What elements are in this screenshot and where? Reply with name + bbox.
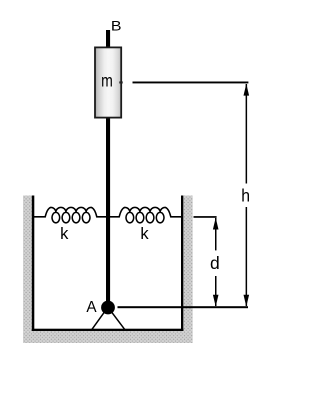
left wall (gray stipple)	[23, 196, 32, 332]
d top reference line (from wall)	[194, 216, 217, 218]
h dimension line (upper segment)	[246, 84, 248, 184]
d dimension line (lower segment)	[215, 276, 217, 306]
svg-text:k: k	[60, 224, 69, 243]
label B	[111, 19, 122, 34]
h top reference line (from mass)	[133, 82, 249, 84]
h arrowhead down	[244, 295, 250, 307]
svg-text:k: k	[140, 224, 149, 243]
pivot A (pin circle)	[101, 301, 115, 315]
spring k (right)	[110, 207, 182, 222]
pivot support leg right	[112, 312, 125, 329]
d arrowhead down	[213, 295, 219, 307]
label k (right)	[140, 224, 149, 243]
label m	[101, 71, 113, 91]
h reference tick on mass	[119, 81, 122, 83]
h dimension line (lower segment)	[246, 207, 248, 306]
svg-text:m: m	[101, 71, 113, 91]
right wall (gray stipple)	[183, 196, 192, 332]
h arrowhead up	[244, 84, 250, 96]
spring k (left)	[34, 207, 107, 222]
mass m (cylinder)	[95, 47, 121, 117]
svg-text:d: d	[210, 253, 220, 273]
label h	[241, 186, 250, 206]
label d	[210, 253, 220, 273]
right wall inner edge	[181, 196, 183, 332]
svg-text:B: B	[111, 19, 122, 34]
svg-text:A: A	[86, 299, 97, 316]
left wall inner edge	[32, 196, 35, 332]
container base (gray stipple)	[23, 331, 193, 343]
pivot support leg left	[92, 312, 105, 329]
d dimension line (upper segment)	[215, 218, 217, 251]
d arrowhead up	[213, 218, 219, 230]
label A	[86, 299, 97, 316]
svg-text:h: h	[241, 186, 250, 206]
label k (left)	[60, 224, 69, 243]
rod (vertical bar from B down to pivot A)	[106, 30, 110, 302]
container bottom inner line	[32, 329, 184, 331]
bottom reference line (pivot level)	[118, 306, 249, 308]
